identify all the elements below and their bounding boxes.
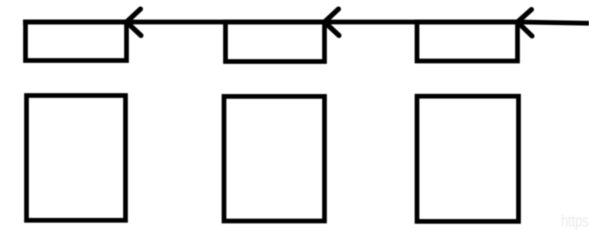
svg-text:https: https: [561, 213, 589, 231]
